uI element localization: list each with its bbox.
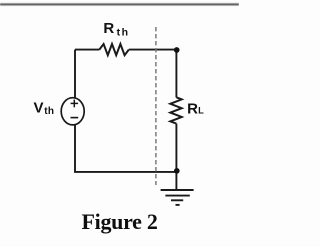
caption Figure 2 xyxy=(82,209,158,234)
label V_th xyxy=(34,99,55,117)
wire: top horizontal left segment (node A to R_th) xyxy=(75,49,99,51)
resistor R_L (vertical zigzag) xyxy=(170,97,181,123)
svg-text:V: V xyxy=(34,99,44,116)
svg-text:th: th xyxy=(117,27,130,39)
wire: top horizontal right segment (R_th to node B) xyxy=(129,49,177,51)
voltage source V_th (circle) xyxy=(61,98,84,125)
dashed boundary line xyxy=(155,27,157,185)
svg-text:th: th xyxy=(44,106,54,117)
label R_L xyxy=(187,100,204,117)
svg-text:R: R xyxy=(187,100,198,117)
junction dot node B (top right) xyxy=(174,47,180,53)
wire: right vertical bottom (R_L to ground) xyxy=(175,124,177,190)
svg-text:R: R xyxy=(103,20,114,37)
wire: bottom rail xyxy=(74,171,176,173)
svg-text:L: L xyxy=(198,105,204,115)
junction dot node C (bottom right) xyxy=(174,168,180,174)
svg-text:Figure 2: Figure 2 xyxy=(82,209,158,234)
wire: left vertical bottom (source - down to bottom rail) xyxy=(74,125,76,172)
source plus sign xyxy=(71,100,79,108)
wire: left vertical top (node A down to source +) xyxy=(74,50,76,98)
resistor R_th (horizontal zigzag) xyxy=(99,44,129,55)
label R_th xyxy=(103,20,129,39)
top border rule xyxy=(0,3,239,5)
ground xyxy=(161,190,194,205)
wire: right vertical top (node B down to R_L) xyxy=(175,50,177,98)
source minus sign xyxy=(71,117,79,119)
